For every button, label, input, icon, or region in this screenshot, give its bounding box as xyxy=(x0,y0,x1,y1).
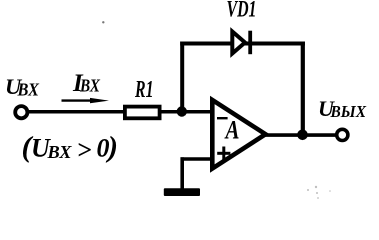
op-amp U1 xyxy=(212,100,265,169)
op-amp minus sign xyxy=(217,117,228,119)
speck artifact xyxy=(102,21,104,23)
svg-text:ВХ: ВХ xyxy=(46,142,72,162)
wire feedback left vertical xyxy=(180,42,184,112)
wire non-inverting input xyxy=(181,157,213,161)
svg-text:R1: R1 xyxy=(134,77,153,103)
svg-text:VD1: VD1 xyxy=(227,0,257,22)
resistor R1 xyxy=(125,107,160,119)
label (Uvx > 0) xyxy=(22,131,119,165)
junction node inverting input xyxy=(177,106,187,116)
wire feedback right vertical xyxy=(301,42,305,136)
svg-text:ВЫХ: ВЫХ xyxy=(330,102,367,121)
junction node output xyxy=(297,130,308,141)
svg-text:>: > xyxy=(77,136,92,165)
wire to ground xyxy=(180,157,184,189)
svg-text:ВХ: ВХ xyxy=(79,76,101,96)
wire input horizontal to op-amp xyxy=(29,110,212,114)
svg-text:A: A xyxy=(224,115,240,145)
ground xyxy=(164,188,200,196)
diode VD1 xyxy=(232,31,250,55)
svg-text:ВХ: ВХ xyxy=(17,79,41,99)
wire output xyxy=(264,133,335,137)
faint smudge artifact xyxy=(307,186,331,199)
output terminal xyxy=(337,129,348,140)
input terminal xyxy=(15,106,27,118)
wire feedback top horizontal xyxy=(180,42,305,46)
current arrow Ivx xyxy=(62,99,94,101)
op-amp plus sign xyxy=(217,152,230,155)
